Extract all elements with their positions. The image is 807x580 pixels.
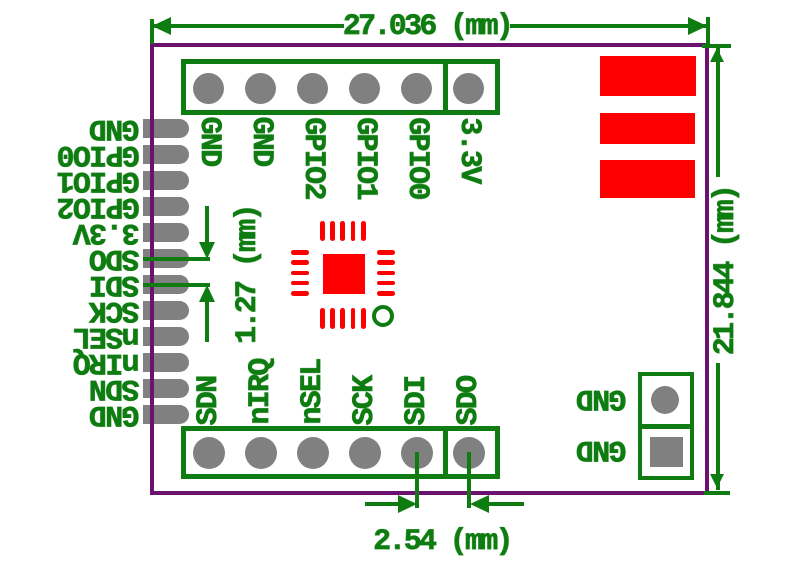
dimension 2.54 mm extension line from SDO pin bbox=[467, 452, 471, 508]
bottom header pin 3 hole bbox=[297, 437, 329, 469]
left edge pad label SDI bbox=[91, 269, 140, 299]
left edge pad label SCK bbox=[91, 295, 140, 325]
U1 bottom pad 5 bbox=[361, 308, 366, 329]
dimension 1.27 mm arrow down bbox=[199, 242, 215, 259]
left edge pad label GPIO0 bbox=[58, 139, 140, 169]
antenna pad 2 bbox=[600, 113, 695, 144]
left edge pad label GPIO2 bbox=[58, 191, 140, 221]
bottom header pin 1 hole bbox=[193, 437, 225, 469]
left edge pad GPIO2 bbox=[143, 197, 189, 216]
dimension 1.27 mm reference line lower (SDI pad) bbox=[143, 283, 210, 287]
left edge pad label GPIO1 bbox=[58, 165, 140, 195]
U1 bottom pad 2 bbox=[330, 308, 335, 329]
bottom header pin 2 label nIRQ bbox=[246, 360, 276, 425]
dimension 2.54 mm arrow left bbox=[470, 495, 489, 513]
GND square pad bbox=[650, 437, 683, 467]
dimension 1.27 mm reference line upper (SDO pad) bbox=[143, 257, 210, 261]
top header pin 6 hole bbox=[453, 73, 484, 104]
dimension 1.27 mm arrow up bbox=[199, 285, 215, 302]
dimension 21.844 mm tick top bbox=[702, 44, 731, 48]
left edge pad label GND bbox=[91, 399, 140, 429]
left edge pad nSEL bbox=[143, 327, 189, 346]
left edge pad label nSEL bbox=[74, 321, 139, 351]
top header pin 5 hole bbox=[401, 73, 432, 104]
top header pin 5 label GPIO0 bbox=[402, 117, 432, 199]
U1 top pad 1 bbox=[320, 221, 325, 240]
dimension 2.54 mm line left segment bbox=[365, 502, 400, 506]
U1 right pad 3 bbox=[377, 271, 395, 276]
left edge pad label nIRQ bbox=[74, 347, 139, 377]
U1 bottom pad 3 bbox=[340, 308, 345, 329]
bottom header pin 1 label SDN bbox=[194, 376, 224, 425]
left edge pad label SDO bbox=[91, 243, 140, 273]
dimension label 2.54 (mm) bbox=[373, 526, 511, 556]
dimension 27.036 mm line left segment bbox=[152, 24, 344, 28]
bottom header connector outline bbox=[181, 426, 501, 479]
dimension label 1.27 (mm) bbox=[233, 206, 263, 344]
left edge pad GPIO1 bbox=[143, 171, 189, 190]
dimension 2.54 mm arrow right bbox=[398, 495, 417, 513]
bottom header pin 4 hole bbox=[349, 437, 381, 469]
left edge pad label GND bbox=[91, 113, 140, 143]
U1 right pad 5 bbox=[377, 291, 395, 296]
dimension 2.54 mm extension line from SDI pin bbox=[415, 452, 419, 508]
U1 left pad 5 bbox=[291, 291, 309, 296]
U1 left pad 1 bbox=[291, 250, 309, 255]
antenna pad 1 bbox=[600, 56, 696, 96]
dimension 27.036 mm extension line left bbox=[150, 19, 154, 44]
bottom header pin 5 hole bbox=[401, 437, 433, 469]
U1 bottom pad 4 bbox=[351, 308, 356, 329]
U1 left pad 4 bbox=[291, 281, 309, 286]
antenna pad 3 bbox=[600, 160, 695, 198]
left edge pad SDI bbox=[143, 275, 189, 294]
left edge pad 3.3V bbox=[143, 223, 189, 242]
top header pin 6 label 3.3V bbox=[454, 117, 484, 182]
bottom header pin 4 label SCK bbox=[350, 376, 380, 425]
dimension 1.27 mm line upper segment bbox=[205, 206, 209, 245]
U1 left pad 3 bbox=[291, 271, 309, 276]
dimension 27.036 mm extension line right bbox=[706, 17, 710, 44]
board outline bbox=[150, 43, 710, 496]
U1 top pad 3 bbox=[340, 221, 345, 240]
top header pin 4 label GPIO1 bbox=[350, 117, 380, 199]
left edge pad nIRQ bbox=[143, 353, 189, 372]
bottom header pin 3 label nSEL bbox=[298, 360, 328, 425]
dimension 27.036 mm arrow right bbox=[688, 17, 707, 35]
top header pin 4 hole bbox=[349, 73, 380, 104]
top header pin 1 label GND bbox=[194, 117, 224, 166]
U1 right pad 2 bbox=[377, 260, 395, 265]
left edge pad GND bbox=[143, 119, 189, 138]
U1 left pad 2 bbox=[291, 260, 309, 265]
bottom header pin 6 divider bbox=[443, 426, 448, 479]
U1 top pad 4 bbox=[351, 221, 356, 240]
GND pads box divider bbox=[638, 424, 694, 429]
bottom header pin 2 hole bbox=[245, 437, 277, 469]
U1 bottom pad 1 bbox=[320, 308, 325, 329]
left edge pad GND bbox=[143, 405, 189, 424]
bottom header pin 6 hole bbox=[453, 437, 485, 469]
left edge pad SDN bbox=[143, 379, 189, 398]
top header pin 1 hole bbox=[193, 73, 224, 104]
U1 right pad 1 bbox=[377, 250, 395, 255]
dimension 27.036 mm line right segment bbox=[510, 24, 708, 28]
dimension label 27.036 (mm) bbox=[343, 11, 511, 41]
left edge pad label SDN bbox=[91, 373, 140, 403]
U1 right pad 4 bbox=[377, 281, 395, 286]
dimension 21.844 mm line top segment bbox=[716, 47, 720, 177]
dimension 27.036 mm arrow left bbox=[152, 17, 171, 35]
GND round pad bbox=[651, 386, 680, 415]
GND square pad label bbox=[577, 434, 626, 464]
GND round pad label bbox=[577, 383, 626, 413]
left edge pad GPIO0 bbox=[143, 145, 189, 164]
GND pads box outline bbox=[638, 372, 694, 480]
bottom header pin 6 label SDO bbox=[454, 376, 484, 425]
dimension 1.27 mm line lower segment bbox=[205, 299, 209, 342]
bottom header pin 5 label SDI bbox=[402, 376, 432, 425]
left edge pad SCK bbox=[143, 301, 189, 320]
U1 pin 1 marker ring bbox=[372, 305, 394, 327]
left edge pad SDO bbox=[143, 249, 189, 268]
U1 exposed pad bbox=[323, 254, 365, 294]
top header pin 3 label GPIO2 bbox=[298, 117, 328, 199]
U1 top pad 5 bbox=[361, 221, 366, 240]
left edge pad label 3.3V bbox=[74, 217, 139, 247]
top header pin 2 hole bbox=[245, 73, 276, 104]
dimension 21.844 mm line bottom segment bbox=[716, 363, 720, 490]
top header pin 3 hole bbox=[297, 73, 328, 104]
top header connector outline bbox=[181, 59, 501, 115]
top header pin 2 label GND bbox=[246, 117, 276, 166]
dimension 21.844 mm arrow down bbox=[710, 474, 724, 488]
dimension 21.844 mm arrow up bbox=[710, 48, 724, 62]
dimension 2.54 mm line right segment bbox=[488, 502, 524, 506]
dimension label 21.844 (mm) bbox=[711, 187, 741, 355]
top header pin 6 divider bbox=[443, 59, 448, 115]
U1 top pad 2 bbox=[330, 221, 335, 240]
dimension 21.844 mm tick bottom bbox=[704, 491, 730, 495]
